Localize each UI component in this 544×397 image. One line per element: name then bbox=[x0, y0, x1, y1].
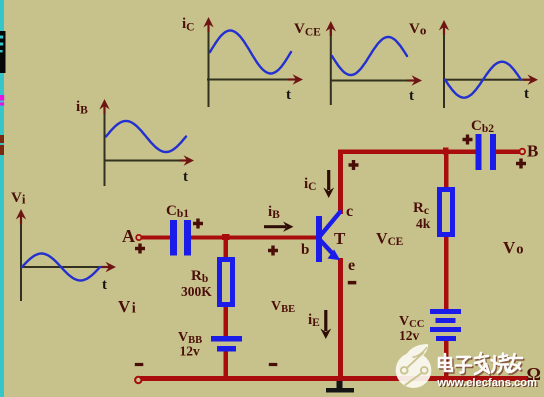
graph VCE: waveform bbox=[332, 37, 407, 75]
graph Vi: horizontal axis bbox=[20, 262, 116, 272]
battery VCC bbox=[430, 309, 461, 341]
svg-text:c: c bbox=[346, 203, 353, 220]
terminal circle node A bbox=[136, 235, 141, 240]
resistor Rc bbox=[440, 190, 453, 235]
polarity + below node A bbox=[135, 244, 145, 254]
wire top rail collector to Cb2 bbox=[338, 150, 476, 155]
svg-text:Vo: Vo bbox=[409, 21, 426, 38]
graph iB: vertical axis bbox=[99, 99, 109, 186]
svg-text:Vi: Vi bbox=[118, 297, 136, 317]
polarity - left on rail bbox=[135, 363, 144, 366]
svg-text:www.elecfans.com: www.elecfans.com bbox=[436, 377, 537, 389]
graph Vo: waveform bbox=[445, 62, 521, 98]
watermark logo disc bbox=[396, 344, 432, 388]
graph iB: waveform bbox=[106, 121, 186, 152]
svg-text:t: t bbox=[102, 277, 107, 293]
graph iB: horizontal axis bbox=[104, 155, 195, 165]
svg-text:e: e bbox=[348, 257, 355, 274]
battery VBB bbox=[211, 336, 242, 352]
wire node A to Cb1 bbox=[140, 236, 170, 240]
resistor Rb bbox=[220, 260, 233, 305]
capacitor Cb1 plates bbox=[170, 220, 191, 256]
watermark chinese brand text bbox=[439, 353, 522, 374]
polarity + at collector top bbox=[349, 160, 359, 170]
watermark chinese text shadow bbox=[440, 355, 523, 376]
ground bbox=[326, 381, 354, 393]
graph Vo: horizontal axis bbox=[443, 75, 538, 85]
polarity - mid on rail bbox=[269, 363, 278, 366]
svg-text:12v: 12v bbox=[399, 328, 420, 343]
svg-text:T: T bbox=[334, 229, 346, 248]
svg-text:Vo: Vo bbox=[503, 238, 524, 258]
wire emitter to ground rail bbox=[338, 258, 343, 378]
graph iC: waveform bbox=[210, 31, 291, 74]
watermark logo circuit cutouts bbox=[401, 347, 428, 385]
polarity - near emitter bbox=[348, 281, 357, 285]
current arrow iE bbox=[320, 310, 331, 339]
screen edge black block bbox=[0, 31, 6, 73]
wire Rc to battery VCC bbox=[444, 236, 449, 310]
svg-text:Vi: Vi bbox=[11, 190, 26, 207]
svg-text:A: A bbox=[122, 226, 135, 246]
graph Vi: vertical axis bbox=[16, 209, 26, 301]
wire collector vertical bbox=[338, 150, 343, 214]
wire Cb2 to node B bbox=[496, 150, 520, 155]
polarity + mid base wire bbox=[268, 246, 278, 256]
svg-text:12v: 12v bbox=[180, 344, 201, 359]
screen edge magenta stripes bbox=[0, 95, 4, 106]
wire junction down to Rc bbox=[444, 154, 449, 188]
svg-text:b: b bbox=[301, 242, 309, 258]
svg-text:300K: 300K bbox=[181, 284, 212, 299]
terminal circle node B bbox=[520, 149, 526, 155]
current arrow iC bbox=[323, 170, 334, 198]
graph VCE: vertical axis bbox=[326, 21, 336, 105]
svg-text:t: t bbox=[183, 169, 188, 185]
current arrow iB bbox=[264, 222, 294, 232]
transistor T bbox=[316, 212, 340, 262]
graph Vo: vertical axis bbox=[439, 20, 449, 108]
capacitor Cb2 plates bbox=[476, 134, 497, 170]
graph VCE: horizontal axis bbox=[330, 75, 422, 85]
graph iC: horizontal axis bbox=[207, 74, 303, 84]
junction at Rb branch bbox=[222, 234, 230, 240]
wire VCC to ground rail bbox=[444, 341, 449, 379]
wire VBB to ground rail bbox=[224, 351, 229, 378]
svg-text:B: B bbox=[527, 142, 538, 161]
polarity + left of Cb2 bbox=[463, 135, 473, 145]
svg-text:t: t bbox=[286, 87, 291, 103]
graph Vi: waveform bbox=[22, 254, 100, 281]
wire Rb to battery VBB bbox=[224, 306, 229, 336]
ground rail wire bbox=[138, 376, 528, 381]
svg-text:t: t bbox=[524, 86, 529, 102]
wire Cb1 to transistor base bbox=[191, 236, 317, 240]
screen edge cyan strip bbox=[0, 0, 4, 397]
polarity + below node B bbox=[516, 159, 526, 169]
wire junction down to Rb bbox=[224, 239, 229, 258]
terminal circle at rail left end bbox=[135, 377, 141, 383]
svg-text:t: t bbox=[409, 88, 414, 104]
svg-text:Ω: Ω bbox=[527, 364, 541, 384]
graph iC: vertical axis bbox=[203, 17, 213, 107]
svg-text:4k: 4k bbox=[416, 216, 431, 231]
polarity + right of Cb1 bbox=[193, 219, 203, 229]
screen edge brown marks bbox=[0, 135, 4, 155]
junction at Rc branch bbox=[443, 148, 449, 155]
